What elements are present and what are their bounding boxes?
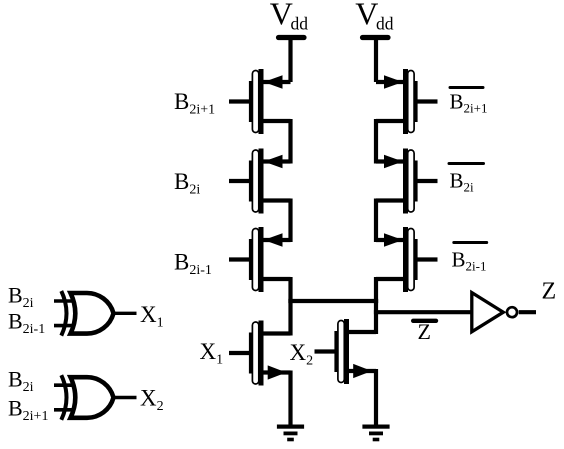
wire: Vdd left rail to P1 source bbox=[288, 40, 292, 82]
svg-text:dd: dd bbox=[376, 13, 394, 33]
XOR gate G1 (output X1) bbox=[54, 291, 114, 336]
label X1 (gate of N1) bbox=[200, 339, 224, 368]
svg-text:B: B bbox=[450, 169, 464, 193]
svg-text:Z: Z bbox=[542, 279, 557, 305]
svg-text:B: B bbox=[450, 90, 464, 114]
svg-text:X: X bbox=[140, 302, 157, 327]
svg-text:2: 2 bbox=[306, 354, 313, 369]
power rail bar Vdd right bbox=[363, 35, 389, 40]
svg-text:V: V bbox=[270, 0, 293, 31]
label X2 (gate of N2) bbox=[290, 340, 314, 369]
PMOS transistor P2 (gate B2i) bbox=[229, 149, 291, 214]
ground symbol under N1 bbox=[277, 425, 304, 442]
wire: P1 drain to P2 source bbox=[288, 119, 292, 164]
wire: P3 drain down to output node bbox=[288, 277, 292, 303]
PMOS transistor P4 (gate B2i+1 bar) bbox=[376, 69, 438, 134]
PMOS transistor P3 (gate B2i-1) bbox=[229, 227, 291, 292]
PMOS transistor P5 (gate B2i bar) bbox=[376, 149, 438, 214]
svg-text:Z: Z bbox=[418, 319, 431, 344]
overbar of B2i bar bbox=[449, 162, 484, 165]
XOR gate G2 (output X2) bbox=[54, 375, 114, 420]
svg-text:B: B bbox=[8, 396, 23, 421]
svg-text:2i-1: 2i-1 bbox=[23, 322, 46, 337]
power rail bar Vdd left bbox=[279, 35, 305, 40]
label B2i-1 (input of G1) bbox=[8, 309, 45, 338]
label Zbar (inverter input net) bbox=[418, 319, 431, 344]
label B2i (input of G1) bbox=[8, 283, 34, 312]
label Vdd (right rail) bbox=[355, 0, 394, 33]
svg-text:2i-1: 2i-1 bbox=[189, 263, 212, 278]
wire: P5 drain to P6 source bbox=[374, 199, 378, 243]
label B2i+1 (input of G2) bbox=[8, 396, 48, 425]
svg-text:V: V bbox=[355, 0, 378, 31]
node Zbar: horizontal bus joining both branches bbox=[288, 299, 378, 303]
svg-text:2: 2 bbox=[157, 399, 164, 414]
wire: P4 drain to P5 source bbox=[374, 119, 378, 164]
svg-text:2i-1: 2i-1 bbox=[466, 259, 487, 274]
NMOS transistor N1 (gate X1) bbox=[229, 321, 291, 386]
label X2 (output of G2) bbox=[140, 386, 164, 415]
overbar of B2i-1 bar bbox=[454, 241, 487, 244]
svg-text:B: B bbox=[8, 283, 23, 308]
svg-text:2i: 2i bbox=[23, 380, 34, 395]
wire: output node down to N1 drain bbox=[288, 299, 292, 336]
wire: Vdd right rail to P4 source bbox=[374, 40, 378, 82]
svg-text:X: X bbox=[290, 340, 307, 365]
wire: P2 drain to P3 source bbox=[288, 199, 292, 243]
NMOS transistor N2 (gate X2) bbox=[315, 319, 377, 384]
ground symbol under N2 bbox=[362, 425, 389, 442]
inverter U1 triangle bbox=[472, 293, 504, 332]
wire: N2 source down to ground bbox=[374, 369, 378, 426]
svg-text:B: B bbox=[174, 250, 189, 275]
svg-text:2i: 2i bbox=[464, 180, 475, 195]
svg-text:2i: 2i bbox=[23, 296, 34, 311]
PMOS transistor P1 (gate B2i+1) bbox=[229, 69, 291, 134]
inverter U1 output bubble bbox=[507, 307, 517, 317]
wire: node Zbar to inverter U1 input bbox=[374, 310, 471, 314]
PMOS transistor P6 (gate B2i-1 bar) bbox=[376, 227, 438, 292]
svg-text:dd: dd bbox=[291, 13, 309, 33]
wire: N1 source down to ground bbox=[288, 371, 292, 427]
label B2i+1 (gate of P1) bbox=[174, 89, 215, 118]
svg-text:B: B bbox=[174, 89, 189, 114]
wire: XOR G1 output stub bbox=[115, 312, 137, 315]
label Vdd (left rail) bbox=[270, 0, 308, 33]
label B2i (input of G2) bbox=[8, 367, 34, 396]
svg-text:X: X bbox=[140, 386, 157, 411]
svg-text:2i+1: 2i+1 bbox=[464, 101, 488, 116]
svg-text:B: B bbox=[452, 248, 466, 272]
svg-text:2i+1: 2i+1 bbox=[23, 409, 49, 424]
svg-text:1: 1 bbox=[157, 316, 164, 331]
svg-text:B: B bbox=[8, 309, 23, 334]
label B2i-1 bar (gate of P6) bbox=[452, 248, 487, 274]
wire: inverter U1 output to Z bbox=[519, 310, 536, 314]
svg-text:1: 1 bbox=[216, 353, 223, 368]
svg-text:2i+1: 2i+1 bbox=[189, 103, 215, 118]
label B2i bar (gate of P5) bbox=[450, 169, 475, 195]
label B2i+1 bar (gate of P4) bbox=[450, 90, 488, 116]
overbar of label Zbar bbox=[413, 319, 436, 323]
wire: output node down to N2 drain bbox=[374, 299, 378, 334]
wire: P6 drain down to output node bbox=[374, 277, 378, 303]
label Z (output net) bbox=[542, 279, 557, 305]
svg-text:2i: 2i bbox=[189, 183, 200, 198]
overbar of B2i+1 bar bbox=[450, 86, 483, 89]
label B2i (gate of P2) bbox=[174, 169, 200, 198]
svg-text:X: X bbox=[200, 339, 217, 364]
wire: XOR G2 output stub bbox=[115, 396, 137, 399]
label X1 (output of G1) bbox=[140, 302, 164, 331]
label B2i-1 (gate of P3) bbox=[174, 250, 212, 279]
svg-text:B: B bbox=[8, 367, 23, 392]
svg-text:B: B bbox=[174, 169, 189, 194]
